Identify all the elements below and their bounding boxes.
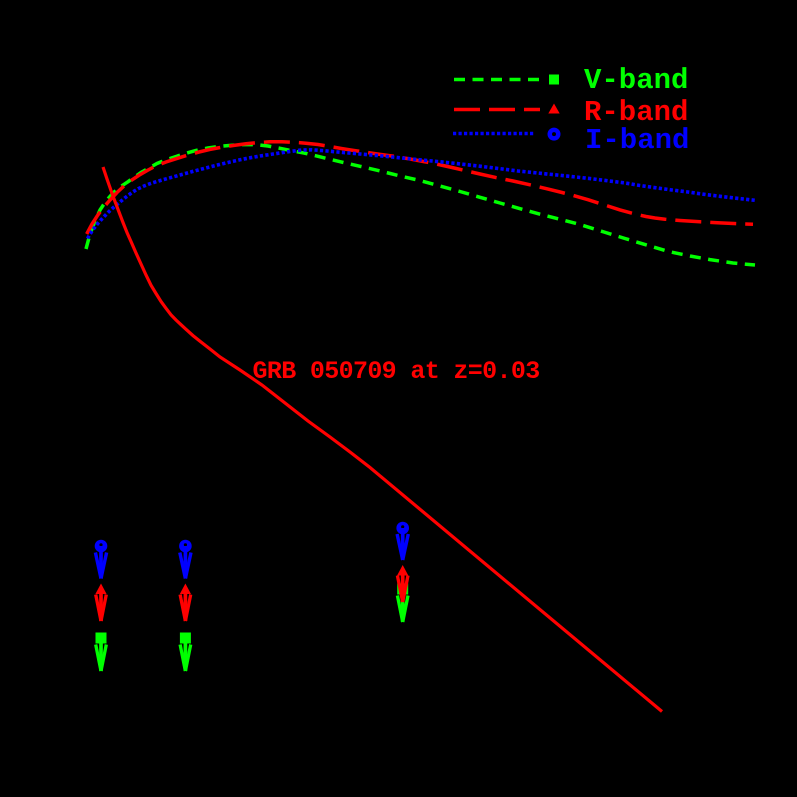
svg-text:V-band: V-band [584, 64, 688, 97]
legend I-band sample line [453, 132, 536, 136]
upper limit group 2: I-band arrow [179, 540, 192, 579]
GRB 050709 afterglow line (solid red) [103, 167, 662, 712]
upper limit group 1: I-band arrow [95, 540, 108, 579]
legend R-band sample line [454, 108, 540, 112]
upper limit group 1: V-band arrow [96, 633, 107, 672]
upper limit group 1: R-band arrow [95, 584, 106, 622]
upper limit group 3: I-band arrow [396, 522, 409, 560]
upper limit group 2: R-band arrow [180, 584, 191, 622]
svg-text:I-band: I-band [585, 124, 689, 157]
I-band SN template curve (blue dotted) [88, 150, 756, 239]
upper limit group 3: R-band arrow (on top) [397, 565, 408, 602]
V-band SN template curve (green dashed) [86, 145, 755, 266]
legend V-band square marker [549, 75, 559, 85]
R-band SN template curve (red long-dashed) [87, 142, 753, 234]
legend I-band circle marker [548, 128, 561, 141]
legend R-band triangle marker [548, 104, 559, 114]
svg-text:GRB 050709 at z=0.03: GRB 050709 at z=0.03 [253, 357, 540, 386]
upper limit group 3: V-band arrow (drawn first, under R) [397, 584, 408, 623]
upper limit group 2: V-band arrow [180, 633, 191, 672]
legend V-band sample line [454, 78, 541, 82]
